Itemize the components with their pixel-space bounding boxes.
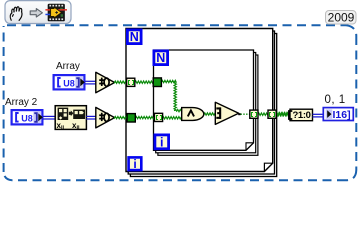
tunnel: inner loop left solid (top wire) (153, 78, 161, 87)
wire: marquee top edge (7, 24, 346, 26)
svg-text:i: i (160, 135, 163, 149)
selection marquee dashed rectangle (4, 25, 357, 180)
for-loop F2 (inner) stacked sheet 3 (158, 55, 258, 155)
wire: Reshape Array to NotEqual0, blue double line (86, 116, 96, 119)
for-loop F2 fold flap (246, 143, 254, 151)
svg-text:U8: U8 (63, 78, 75, 88)
wire: top boolean array zigzag, NotEqual0 to outer tunnel (114, 81, 127, 83)
svg-text:I16]: I16] (333, 109, 351, 121)
wire: bottom zigzag NotEqual0 to outer tunnel (114, 116, 128, 118)
wire: bottom zigzag inner tunnel to AND input (162, 117, 182, 119)
svg-text:Array: Array (56, 61, 80, 72)
function: Not Equal To 0? (bottom) U3 (96, 107, 115, 128)
tunnel: outer loop right indexing [] (268, 110, 276, 118)
tunnel: inner loop left indexing [] (bottom wire) (154, 113, 162, 121)
wire: Array 2 to Reshape Array, blue double line (43, 116, 56, 119)
svg-text:Array 2: Array 2 (5, 97, 38, 108)
for-loop F1 (outer) stacked sheet 3 (130, 34, 276, 177)
wire: marquee top-right corner arc (346, 25, 356, 36)
wire: bottom zigzag outer tunnel to inner tunnel (135, 116, 155, 118)
function: Boolean To (0,1) U6 (289, 109, 313, 121)
for-loop F1 (outer) front sheet with folded corner (126, 29, 273, 172)
toolbar panel (5, 1, 71, 24)
svg-text:i: i (133, 157, 136, 171)
icon: VI filmstrip (45, 4, 67, 21)
wire: marquee right edge (355, 36, 357, 170)
svg-text:N: N (130, 30, 139, 44)
wire: AND output zigzag to E-triangle (204, 113, 216, 115)
function: And Array Elements triangle U5 (215, 102, 238, 124)
svg-text:0, 1: 0, 1 (325, 94, 346, 106)
tunnel: outer loop left indexing [] (top wire) (127, 78, 135, 86)
iteration terminal i of inner loop F2 (155, 135, 169, 150)
control terminal Array 2 [U8] (12, 110, 43, 124)
wire: top zigzag outer tunnel to inner tunnel (135, 81, 154, 83)
count terminal N of outer loop F1 (127, 30, 141, 44)
gate: AND U4 (182, 108, 204, 121)
iteration terminal i of outer loop F1 (129, 157, 142, 171)
icon: hand tool (10, 7, 22, 21)
for-loop F2 (inner) stacked sheet 2 (156, 53, 256, 153)
function: Reshape Array (55, 106, 86, 131)
svg-text:?1:0: ?1:0 (293, 110, 311, 121)
wire: marquee bottom edge (12, 179, 346, 181)
wire: Bool-to-01 to I16 indicator, blue 2D double line (313, 114, 325, 117)
tunnel: outer loop left solid (bottom wire) (127, 114, 135, 122)
wire: zigzag between right tunnels (258, 113, 269, 115)
wire: marquee bottom-right corner arc (346, 170, 356, 180)
indicator terminal [I16] (323, 108, 353, 121)
svg-text:N: N (156, 51, 165, 65)
for-loop F1 (outer) stacked sheet 2 (128, 31, 274, 174)
label: 2009 bubble (326, 10, 357, 24)
tunnel: inner loop right indexing [] (250, 110, 258, 118)
icon: gray block arrow (30, 9, 42, 17)
wire: top zigzag vertical drop to AND (174, 82, 176, 111)
svg-text:2009: 2009 (328, 10, 355, 24)
wire: top zigzag into AND input (176, 109, 182, 111)
for-loop F1 fold flap (264, 163, 272, 171)
wire: scalar boolean dotted, E-triangle to inner right tunnel (241, 113, 250, 115)
for-loop F2 (inner) front sheet with folded corner (154, 50, 254, 150)
wire: top zigzag inside inner loop (161, 80, 176, 82)
wire: marquee bottom-left corner arc (4, 171, 12, 180)
svg-text:U8: U8 (21, 113, 33, 123)
wire: Array to NotEqual0, blue 1D array double line (85, 81, 96, 84)
wire: marquee left edge (3, 26, 5, 172)
wire: 2D boolean double zigzag to Bool-to-01 (276, 113, 290, 116)
count terminal N of inner loop F2 (154, 51, 168, 65)
control terminal Array [U8] (54, 75, 85, 89)
node: E-triangle output stub (238, 113, 240, 115)
function: Not Equal To 0? (top) U2 (96, 72, 115, 93)
